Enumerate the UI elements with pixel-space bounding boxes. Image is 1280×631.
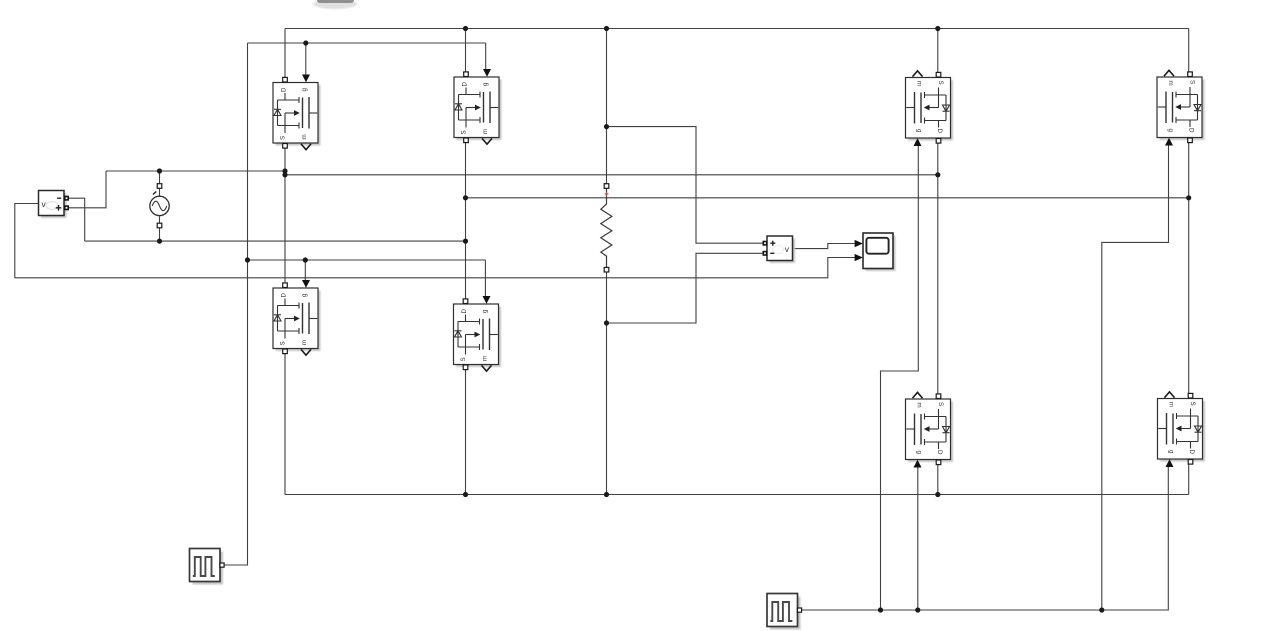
- junction: PG2 bus B1 tap: [878, 607, 883, 612]
- junction: A1 gate tap: [303, 40, 308, 45]
- wire: A1/A3 midpoint to B1 drain y=174.8: [285, 174, 938, 176]
- wire: resistor bottom branch to V2 minus: [607, 253, 763, 323]
- wire: AC top node to A1 source node y=171: [106, 170, 285, 172]
- wire: A1 gate drop: [305, 43, 307, 75]
- wire: V1 output to scope input 2: [15, 204, 855, 278]
- transistor A1 (top-left MOSFET): [273, 75, 321, 150]
- junction: bottom rail B3: [935, 492, 940, 497]
- wire: A1 source to A3 drain leg: [284, 148, 286, 282]
- wire: resistor top leg from rail: [606, 29, 608, 184]
- resistor R load: [601, 184, 612, 272]
- junction: A2 source / B2 drain wire: [463, 195, 468, 200]
- wire: B3 gate feed: [917, 467, 919, 610]
- wire: A4 gate drop: [484, 260, 486, 297]
- junction: PG1 bus lower tap: [245, 257, 250, 262]
- junction: A1 source / AC top: [282, 168, 287, 173]
- wire: A2 source to A4 drain leg: [465, 142, 467, 299]
- wire: A2 drain drop: [465, 29, 467, 72]
- wire: B1 source drop: [937, 29, 939, 73]
- junction: B1 drain: [935, 172, 940, 177]
- junction: top rail B1: [935, 26, 940, 31]
- transistor B2 (far-right top MOSFET, rotated 180): [1157, 70, 1205, 145]
- red polarity mark: [605, 192, 609, 196]
- junction: A2 source / AC bottom: [463, 239, 468, 244]
- junction: A3 gate tap: [303, 257, 308, 262]
- junction: AC top: [157, 168, 162, 173]
- voltmeter V1 (flipped): [39, 191, 70, 219]
- transistor A4: [454, 296, 502, 371]
- wire: top DC rail y=28.5: [285, 28, 1189, 30]
- wire: A3 source to bottom rail: [284, 351, 286, 494]
- wire: B1 gate feed: [881, 145, 919, 610]
- transistor A2: [454, 69, 502, 144]
- scope input arrow 1: [855, 240, 863, 247]
- pulse generator PG1: [190, 549, 225, 585]
- junction: bottom rail resistor: [604, 492, 609, 497]
- scope block: [855, 233, 896, 271]
- transistor A3 (lower-left MOSFET): [273, 280, 321, 355]
- wire: gate bus upper (PG1) y=43: [248, 42, 486, 44]
- junction: resistor bottom branch: [604, 320, 609, 325]
- junction: top rail resistor: [604, 26, 609, 31]
- transistor B4 (far-right bottom MOSFET, rotated 180): [1158, 392, 1206, 467]
- junction: A1 source / B1 drain wire: [282, 172, 287, 177]
- wire: PG1 output to gate bus: [224, 43, 248, 565]
- voltmeter V2: [763, 236, 796, 263]
- junction: top rail A2: [463, 26, 468, 31]
- wire: B1 drain to B3 source leg: [937, 140, 939, 396]
- wire: B2 source drop from top rail: [1188, 29, 1190, 72]
- junction: B2 drain: [1186, 195, 1191, 200]
- transistor B3 (lower-right MOSFET, rotated 180): [906, 392, 954, 467]
- wire: A3 gate drop: [304, 260, 306, 281]
- wire: AC source bottom stub: [159, 228, 161, 241]
- wire: A2/A4 midpoint to B2 drain y=197.8: [466, 197, 1189, 199]
- pulse generator PG2: [767, 594, 802, 630]
- wire: AC bottom node y=241: [85, 240, 466, 242]
- wire: AC source top stub inner: [159, 188, 161, 196]
- wire: PG2 output bus y=610: [802, 466, 1169, 610]
- scope input arrow 2: [855, 254, 863, 261]
- wire: B2 drain to B4 source leg: [1188, 140, 1190, 396]
- wire: A1 drain drop from top rail: [284, 29, 286, 78]
- wire: V1 minus input from AC bottom: [69, 198, 85, 241]
- wire: bottom rail y=494.5: [285, 494, 1189, 496]
- wire: AC source top stub: [159, 171, 161, 184]
- wire: gate bus lower (PG1) y=260: [248, 259, 486, 261]
- svg-text:v: v: [785, 244, 790, 254]
- junction: bottom rail A4: [463, 492, 468, 497]
- wire: B2 gate feed: [1102, 144, 1169, 610]
- wire: A4 source to bottom rail: [465, 367, 467, 494]
- AC voltage source: [150, 184, 170, 228]
- wire: resistor bottom lead: [606, 272, 608, 495]
- wire: AC source bottom stub inner: [159, 216, 161, 224]
- cropped block at top edge: [313, 0, 357, 9]
- wire: B4 drain to bottom rail: [1188, 461, 1190, 494]
- wire: V1 plus input from AC top: [69, 171, 106, 208]
- transistor B1 (top-right MOSFET, rotated 180): [906, 71, 954, 146]
- junction: AC bottom: [157, 239, 162, 244]
- wire: resistor top branch to V2 plus: [607, 127, 763, 244]
- wire: A2 gate drop: [485, 43, 487, 70]
- junction: resistor top branch: [604, 124, 609, 129]
- junction: PG2 bus B3 tap: [915, 607, 920, 612]
- wire: V2 output to scope input 1: [793, 244, 855, 249]
- junction: PG2 bus B2 tap: [1099, 607, 1104, 612]
- wire: B3 drain to bottom rail: [937, 462, 939, 495]
